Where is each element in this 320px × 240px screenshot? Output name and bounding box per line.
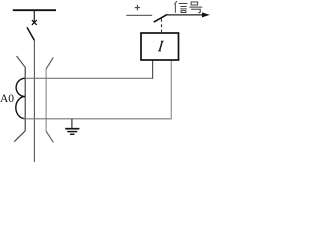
svg-text:A0: A0: [0, 93, 14, 105]
